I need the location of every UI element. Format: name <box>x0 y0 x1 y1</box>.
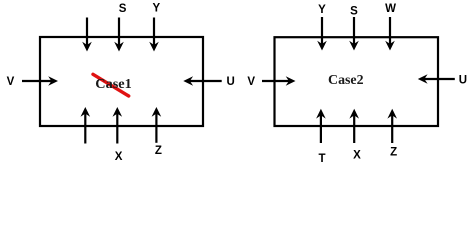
svg-text:V: V <box>7 76 15 88</box>
arrow down S (Case2 top-middle) <box>349 17 359 51</box>
arrow down S (Case1 top-middle) <box>114 18 124 52</box>
arrow right V (Case1 left side) <box>22 76 58 86</box>
svg-text:Z: Z <box>390 146 397 158</box>
svg-text:Case2: Case2 <box>328 73 364 88</box>
svg-text:Y: Y <box>318 4 326 16</box>
arrow down unlabeled (Case1 top-left) <box>82 18 92 52</box>
svg-text:X: X <box>115 151 123 163</box>
arrow down W (Case2 top-right) <box>385 17 395 51</box>
box Case1 <box>40 37 203 126</box>
svg-text:V: V <box>247 76 255 88</box>
svg-text:Z: Z <box>155 145 162 157</box>
arrow up Z (Case2 bottom-right) <box>387 109 397 143</box>
arrow left U (Case1 right side) <box>183 76 221 86</box>
arrow up X (Case2 bottom-middle) <box>349 109 359 143</box>
arrow up Z (Case1 bottom-right) <box>152 107 162 143</box>
red strike line <box>93 74 129 96</box>
svg-text:U: U <box>459 75 467 87</box>
arrow up unlabeled (Case1 bottom-left) <box>81 107 91 144</box>
svg-text:X: X <box>353 149 361 161</box>
arrow down Y (Case1 top-right) <box>149 18 159 52</box>
svg-text:W: W <box>385 3 396 15</box>
arrow up X (Case1 bottom-middle) <box>113 107 123 144</box>
svg-text:T: T <box>318 153 325 165</box>
arrow left U (Case2 right side) <box>418 74 455 84</box>
arrow down Y (Case2 top-left) <box>317 17 327 51</box>
svg-text:Case1: Case1 <box>95 77 132 92</box>
svg-text:S: S <box>119 3 127 15</box>
svg-text:Y: Y <box>152 3 160 15</box>
arrow right V (Case2 left side) <box>262 76 296 86</box>
svg-text:U: U <box>226 76 234 88</box>
svg-text:S: S <box>350 6 358 18</box>
arrow up T (Case2 bottom-left) <box>316 109 326 143</box>
box Case2 <box>275 37 439 126</box>
